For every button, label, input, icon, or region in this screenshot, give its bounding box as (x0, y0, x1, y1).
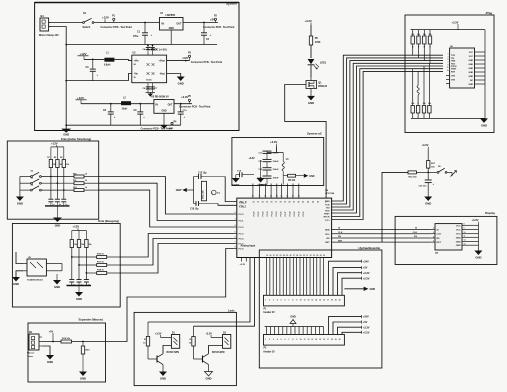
svg-text:100nF: 100nF (273, 178, 280, 180)
svg-text:GND: GND (469, 68, 474, 70)
svg-text:+3.3V: +3.3V (363, 325, 370, 329)
svg-text:GND: GND (469, 84, 474, 86)
resistor R6 (283, 174, 304, 182)
svg-text:6: 6 (285, 300, 286, 302)
svg-text:DCDC: DCDC (146, 80, 152, 82)
svg-text:40: 40 (289, 201, 291, 204)
svg-text:8: 8 (464, 224, 465, 226)
svg-text:28: 28 (296, 255, 298, 257)
svg-text:GND: GND (456, 245, 461, 247)
svg-text:38: 38 (280, 202, 282, 204)
wire power flag +24V header P2 (329, 315, 370, 335)
switch S5 reset (437, 166, 447, 174)
power flag +3.3V LED1 (155, 332, 171, 337)
svg-text:RTCK: RTCK (324, 217, 330, 219)
svg-text:GND: GND (290, 315, 296, 318)
wire net BEUG2 to uC (120, 239, 233, 266)
wire header P2 top stubs and rail (265, 327, 324, 335)
wire U5 pin2 to ground (16, 271, 23, 277)
svg-text:BC547-NPN: BC547-NPN (212, 351, 225, 354)
wire R19 output (72, 341, 106, 343)
wire GND bus top row (66, 44, 217, 46)
ground GND display (474, 251, 482, 260)
resistor R27 JTAG pulldown (411, 69, 415, 119)
wire +12V rail Geber (51, 146, 64, 148)
svg-text:9: 9 (296, 339, 297, 341)
svg-text:TCK: TCK (451, 55, 456, 57)
svg-text:+12V: +12V (80, 52, 87, 56)
svg-text:RST: RST (437, 242, 442, 244)
svg-text:-Vout: -Vout (159, 73, 165, 76)
switch S3 (31, 177, 42, 184)
svg-text:GND: GND (309, 175, 314, 178)
wire U3 output +3.3V (174, 103, 192, 105)
svg-text:11: 11 (304, 300, 306, 302)
svg-text:Expander (Wasser): Expander (Wasser) (79, 317, 104, 321)
ground GND LED1 (159, 372, 167, 381)
svg-text:+24V: +24V (363, 315, 369, 319)
svg-text:9: 9 (464, 228, 465, 230)
wire +3.3V to R5 (310, 25, 312, 36)
wire JTAG bottom rail (411, 117, 485, 119)
test point P1 label (101, 15, 133, 29)
svg-text:5: 5 (281, 300, 282, 302)
capacitor C7 (150, 83, 158, 93)
frame box Display (395, 216, 497, 264)
wire JTAG VCC rail (480, 30, 485, 119)
svg-text:11: 11 (464, 236, 466, 238)
resistor R17 series Beugung (97, 262, 107, 267)
capacitor C19 Geber (61, 199, 68, 206)
wire LED1 to Q1 (310, 65, 312, 77)
svg-text:GND: GND (76, 297, 82, 301)
power flag +3.3V display (472, 218, 479, 224)
label JTag (485, 11, 492, 15)
resistor R30 JTAG pulldown (428, 63, 432, 118)
svg-text:31: 31 (306, 255, 308, 257)
svg-text:10: 10 (300, 339, 302, 341)
wire net LED1 input (148, 258, 250, 337)
wire Geber switch 2 left (20, 182, 31, 184)
svg-text:3: 3 (448, 56, 449, 58)
svg-text:11: 11 (304, 339, 306, 341)
svg-text:12: 12 (307, 300, 309, 302)
svg-text:6: 6 (235, 237, 236, 239)
svg-text:+5V: +5V (49, 329, 54, 333)
resistor R26 JTAG pullup (428, 30, 432, 64)
svg-text:GND: GND (469, 76, 474, 78)
wire crystal rails (187, 177, 237, 206)
resistor R18 series Beugung (97, 270, 107, 275)
svg-text:R18 1k: R18 1k (97, 270, 105, 272)
svg-text:Hydraulikventile: Hydraulikventile (358, 246, 380, 250)
capacitor C2 (201, 22, 212, 45)
svg-text:7: 7 (288, 300, 289, 302)
ground GND DCDC output (177, 77, 185, 86)
resistor R13 pullup Beugung (70, 231, 78, 248)
wire +12V rail Beugung (72, 230, 87, 232)
resistor R15 pullup Beugung (85, 231, 93, 248)
svg-text:BC547-NPN: BC547-NPN (167, 351, 180, 354)
capacitor C15 (194, 172, 226, 179)
svg-text:R19 10k: R19 10k (62, 338, 71, 340)
capacitor C13 (258, 168, 279, 176)
wire D2 to Q3 collector (209, 346, 223, 354)
svg-text:Connector PCB - Test Point: Connector PCB - Test Point (191, 61, 223, 64)
wire net GEBER2 to uC (99, 183, 234, 220)
svg-text:GND: GND (80, 377, 86, 381)
svg-text:24: 24 (283, 254, 285, 257)
wire net LED2 input (194, 258, 255, 337)
svg-text:17: 17 (327, 339, 329, 341)
svg-text:44: 44 (307, 201, 309, 204)
svg-text:R32 100: R32 100 (409, 177, 418, 179)
wire U5 pin1 (16, 252, 23, 264)
svg-text:34: 34 (262, 201, 264, 204)
svg-text:45: 45 (312, 201, 314, 204)
wire B1 pin1 to switch S1 (51, 22, 83, 24)
wire +Vout to test point (167, 60, 190, 62)
wire power flag +2.5V header P2 (342, 330, 370, 334)
svg-text:2: 2 (433, 228, 434, 230)
power flag +3.3V LED chain (305, 19, 312, 25)
wire cap stack top rail (267, 152, 283, 154)
svg-text:GND: GND (469, 60, 474, 62)
wire Beugung row 3 (86, 272, 97, 274)
capacitor C17 Geber (48, 199, 55, 206)
svg-text:+Vin: +Vin (134, 60, 139, 63)
resistor R28 JTAG pulldown (416, 71, 419, 118)
label Hydraulikventile (358, 246, 380, 250)
svg-text:18: 18 (298, 196, 300, 198)
led module D2 (223, 332, 231, 348)
svg-text:XTAL2: XTAL2 (239, 205, 247, 208)
svg-text:GND: GND (47, 360, 53, 364)
wire Geber row 2 (41, 182, 74, 184)
svg-text:VCC: VCC (456, 225, 461, 227)
resistor R7 pullup Geber (47, 147, 57, 168)
resistor R11 series Geber (73, 180, 88, 185)
svg-text:16: 16 (286, 196, 288, 198)
crystal Y1 (202, 181, 221, 201)
svg-text:C23 10u: C23 10u (418, 186, 427, 188)
wire Geber row 1 (41, 176, 74, 178)
svg-text:Wasser: Wasser (27, 353, 35, 355)
wire -Vin rail (65, 74, 132, 82)
svg-text:VSS: VSS (451, 75, 456, 77)
ground GND U5 centre (53, 274, 61, 289)
svg-text:43: 43 (302, 201, 304, 204)
wire Geber column 2 (56, 168, 58, 199)
display driver U7 (430, 224, 467, 255)
svg-text:4: 4 (277, 338, 278, 341)
svg-text:+3.3V: +3.3V (472, 218, 479, 222)
svg-text:36: 36 (271, 202, 273, 204)
wire Beugung row 1 (71, 256, 97, 258)
connector B1 battery clamp 12V (39, 14, 59, 37)
resistor R12 series Geber (73, 187, 88, 192)
label Knie Beugung (98, 219, 119, 223)
svg-text:IN: IN (156, 104, 159, 107)
svg-text:30: 30 (240, 202, 242, 204)
ground GND Geber caps (53, 218, 62, 228)
wire power flag +2.5V header P1 (342, 276, 370, 295)
svg-text:19: 19 (335, 339, 337, 341)
svg-text:+3.3V: +3.3V (249, 157, 256, 160)
svg-text:11: 11 (447, 67, 449, 69)
wire R31 to junction (427, 168, 429, 179)
svg-text:20: 20 (339, 339, 341, 341)
power flag +3.3V reset (422, 143, 429, 149)
svg-text:10: 10 (464, 232, 466, 234)
svg-text:+3.3V: +3.3V (206, 332, 213, 335)
wire Geber cap rail (45, 206, 70, 218)
svg-text:GND: GND (162, 111, 167, 113)
svg-text:Connector PCB - Test Point: Connector PCB - Test Point (203, 26, 235, 29)
svg-text:19: 19 (335, 300, 337, 302)
power flag +3.3V uC (270, 140, 277, 146)
transistor Q1 BSS123 (305, 77, 328, 96)
svg-text:7: 7 (288, 339, 289, 341)
svg-text:29: 29 (300, 255, 302, 257)
wire -Vout to ground (167, 74, 181, 77)
svg-text:CLK: CLK (338, 232, 343, 234)
label Knie Geber Streckung (61, 137, 91, 141)
capacitor C1 (133, 22, 153, 45)
test point P2 label (203, 15, 235, 29)
svg-text:3: 3 (273, 300, 274, 302)
svg-text:TDO: TDO (325, 211, 330, 213)
svg-text:+3.3V: +3.3V (240, 264, 246, 266)
svg-text:100nF: 100nF (273, 169, 280, 171)
svg-text:+3.3V: +3.3V (305, 19, 312, 23)
svg-text:Switch: Switch (83, 26, 91, 29)
svg-text:470R: 470R (315, 41, 321, 44)
ground flag GND right (304, 174, 315, 178)
wire Geber column 3 (63, 168, 65, 199)
svg-text:4: 4 (277, 299, 278, 302)
svg-text:JTag: JTag (485, 11, 492, 15)
frame box System (power supply) (35, 3, 239, 131)
wire net BEUG3 to uC (120, 244, 233, 274)
resistor R20 (81, 342, 90, 355)
svg-text:31: 31 (245, 202, 247, 204)
transistor Q3 BC547 (194, 346, 225, 365)
wire D1 to Q2 collector (163, 346, 171, 354)
svg-text:13: 13 (311, 339, 313, 341)
capacitor C20 Beugung (69, 280, 76, 287)
svg-text:+3.3V: +3.3V (422, 143, 429, 147)
svg-text:SDA: SDA (325, 229, 330, 232)
svg-text:18: 18 (331, 300, 333, 302)
svg-text:13: 13 (464, 244, 466, 246)
svg-text:GND: GND (17, 202, 23, 206)
capacitor C14 (236, 170, 254, 179)
wire U1 output +5V (183, 22, 218, 24)
svg-text:TDO: TDO (451, 63, 456, 65)
svg-text:GND: GND (169, 27, 174, 30)
capacitor C23 (418, 180, 434, 197)
frame box Knie (Geber Streckung) (7, 141, 98, 219)
svg-text:-Vin: -Vin (134, 73, 139, 76)
svg-text:Motor Clamp 12V: Motor Clamp 12V (39, 34, 59, 37)
svg-text:20: 20 (269, 255, 271, 257)
svg-text:2: 2 (269, 339, 270, 341)
label pin numbers uC top (252, 195, 300, 198)
wire R32 to junction (416, 171, 428, 173)
resistor R22 (189, 337, 196, 347)
wire Geber switch 1 left (20, 176, 31, 178)
resistor R10 series Geber (73, 173, 88, 178)
wire uC left pin stubs (234, 212, 245, 251)
svg-text:2: 2 (269, 300, 270, 302)
dcdc converter U2 (132, 48, 167, 83)
svg-text:8: 8 (292, 300, 293, 302)
svg-text:GND: GND (475, 256, 481, 260)
ground GND under R20 (79, 372, 87, 381)
label Expander Wasser (79, 317, 104, 321)
svg-text:GND: GND (257, 183, 263, 187)
svg-text:14: 14 (315, 338, 317, 341)
svg-text:VCC: VCC (469, 52, 474, 54)
svg-text:LPC2194: LPC2194 (325, 192, 335, 195)
svg-text:TLE4905 Winkel: TLE4905 Winkel (27, 278, 43, 281)
ground GND star (232, 178, 241, 187)
svg-text:C16 15p: C16 15p (190, 208, 199, 210)
resistor R8 pullup Geber (54, 147, 64, 168)
ground GND at system box bottom left (61, 129, 71, 137)
frame box Leds (134, 312, 236, 385)
wire power flag +5V header P1 (333, 266, 368, 296)
svg-text:System uC: System uC (307, 132, 323, 136)
svg-text:16: 16 (323, 300, 325, 302)
frame box Knie (Beugung) (12, 224, 120, 308)
svg-text:20: 20 (339, 300, 341, 302)
svg-text:17: 17 (327, 300, 329, 302)
svg-text:11: 11 (258, 196, 260, 198)
svg-text:16: 16 (323, 339, 325, 341)
inductor L3 ferrite (282, 153, 289, 185)
resistor R32 (408, 171, 417, 179)
svg-text:GND: GND (425, 202, 431, 206)
svg-text:+2.5V: +2.5V (363, 330, 370, 334)
wire power flag +5V header P2 (333, 320, 368, 334)
wire S5 to ground (447, 172, 452, 176)
svg-text:1: 1 (448, 54, 449, 56)
inductor L2 (121, 96, 131, 110)
svg-text:TRST: TRST (324, 214, 330, 216)
svg-text:18: 18 (331, 339, 333, 341)
svg-text:32: 32 (253, 202, 255, 204)
svg-text:34: 34 (316, 254, 318, 257)
wire +12V to L1 (84, 58, 104, 60)
svg-text:GND: GND (13, 282, 19, 286)
capacitor C8 (103, 103, 116, 125)
header P2 Header 20 (264, 335, 345, 354)
wire net RST vertical (382, 172, 408, 242)
svg-text:XTAL 32k: XTAL 32k (202, 190, 205, 199)
svg-text:GND: GND (178, 82, 184, 86)
switch S2 (31, 171, 42, 178)
wire net BEUG1 to uC (120, 234, 233, 258)
svg-text:7: 7 (235, 242, 236, 244)
regulator U1 LM7805 (160, 12, 184, 45)
wire Geber row 2 to box edge (84, 182, 99, 184)
svg-text:25: 25 (286, 255, 288, 257)
svg-text:30: 30 (303, 255, 305, 257)
svg-text:1: 1 (265, 339, 266, 341)
wire power flag +3.3V header P1 (338, 271, 370, 296)
wire Geber switch 3 left (20, 189, 31, 191)
ground GND Geber switches (16, 197, 24, 206)
svg-text:Header 20: Header 20 (264, 351, 276, 354)
wire GND rail REG row (65, 124, 180, 126)
wire Beugung cap rail (67, 286, 92, 293)
svg-text:Taster: Taster (27, 355, 33, 358)
wire JTAG top rail (411, 29, 486, 31)
svg-text:+3.3V: +3.3V (155, 332, 162, 335)
svg-text:12: 12 (307, 339, 309, 341)
ground GND JTAG (480, 118, 488, 127)
resistor R19 (61, 338, 72, 343)
wire display power rail (467, 224, 478, 251)
ground GND LED2 (205, 372, 213, 381)
ground GND under Q1 (307, 96, 315, 105)
switch S1 (83, 11, 94, 29)
wire Geber switches ground bus (19, 177, 21, 197)
wire Beugung column 2 (78, 248, 80, 280)
svg-text:SCL: SCL (325, 234, 330, 236)
power flag +3.3V LED2 (206, 332, 223, 337)
wire junction to S5 (428, 171, 437, 173)
svg-text:Knie (Beugung): Knie (Beugung) (98, 219, 119, 223)
svg-text:13: 13 (447, 70, 449, 72)
power flag +12V REG row (76, 96, 87, 104)
svg-text:OUT: OUT (168, 104, 173, 107)
resistor R9 pullup Geber (60, 147, 70, 168)
svg-text:R7: R7 (47, 157, 49, 159)
wire stubs cluster to uC top pins (253, 184, 299, 199)
button arrow S5 (451, 171, 457, 177)
svg-text:Connector PCB - Test Point: Connector PCB - Test Point (141, 127, 173, 130)
svg-text:OUT: OUT (176, 23, 182, 26)
svg-text:19: 19 (266, 255, 268, 257)
power flag +5V Wasser (49, 329, 54, 342)
connector B2 Taster (27, 332, 42, 358)
resistor R24 JTAG pullup (417, 30, 421, 58)
svg-text:5: 5 (281, 339, 282, 341)
svg-text:13: 13 (270, 196, 272, 198)
svg-text:21: 21 (273, 255, 275, 257)
transistor Q2 BC547 (148, 346, 179, 365)
svg-text:VSS: VSS (451, 79, 456, 81)
label System (226, 1, 237, 5)
svg-text:37: 37 (275, 202, 277, 204)
inductor L1 (104, 51, 114, 66)
wire Q3 emitter (208, 365, 210, 372)
wire L2 to U3 input (131, 103, 154, 105)
ground GND U5 left (12, 277, 20, 286)
wire net RST uC to display (332, 240, 430, 242)
svg-text:6: 6 (285, 339, 286, 341)
svg-text:TCK: TCK (325, 204, 330, 206)
wire net WASSER to uC (106, 249, 234, 342)
resistor R23 JTAG pullup (411, 30, 415, 56)
wire uC bottom pins to header P1 (267, 258, 324, 296)
svg-text:9: 9 (296, 300, 297, 302)
svg-text:13: 13 (311, 300, 313, 302)
resistor R31 (427, 161, 436, 169)
